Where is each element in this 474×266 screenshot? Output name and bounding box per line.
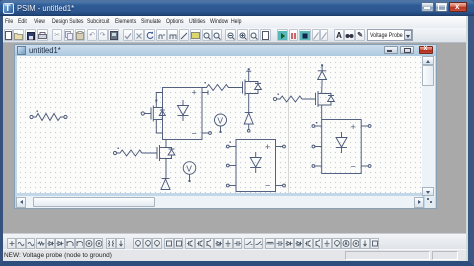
min/max/close <box>421 2 434 12</box>
wire Q3 drain up to BD1 bottom edge <box>165 140 167 148</box>
wire Q4 source to BD3 <box>321 105 323 120</box>
resistor R4 <box>273 94 315 103</box>
MOSFET Q3 <box>157 145 175 161</box>
svg-text:V: V <box>217 115 223 125</box>
diode bridge BD2 <box>226 140 285 192</box>
MOSFET Q4 <box>316 80 335 108</box>
main toolbar <box>3 28 468 43</box>
voltage probe VP1 <box>215 114 227 133</box>
title bar <box>0 0 474 16</box>
resistor R3 <box>113 148 157 157</box>
MOSFET Q2 <box>243 68 262 95</box>
resistor R1 <box>30 111 67 121</box>
schematic SVG <box>17 56 422 193</box>
wire Q2 source down <box>248 94 250 113</box>
bottom element toolbar <box>3 233 466 249</box>
node dot Q1 drain <box>155 100 157 102</box>
MDI grey background <box>3 43 466 233</box>
wire Q1 drain to bridge BD1 top-left <box>156 93 162 108</box>
canvas <box>17 56 422 193</box>
diode bridge BD3 <box>312 120 371 174</box>
resize grip corner <box>425 196 435 208</box>
diode bridge BD1 <box>163 88 212 140</box>
child window <box>14 44 437 209</box>
diode D2 <box>244 113 253 133</box>
wire Q3 drain horizontal <box>163 147 166 149</box>
svg-text:+: + <box>351 122 356 132</box>
svg-text:+: + <box>265 142 270 152</box>
diode D3 <box>318 64 327 79</box>
voltage probe VP2 <box>183 162 196 182</box>
svg-text:−: − <box>192 129 197 139</box>
svg-text:−: − <box>351 162 356 172</box>
horizontal scrollbar <box>17 196 422 208</box>
MOSFET Q1 <box>141 106 165 122</box>
svg-text:+: + <box>192 88 197 98</box>
diode D4 <box>161 179 170 190</box>
svg-text:−: − <box>265 181 270 191</box>
page boundary line <box>288 56 290 193</box>
wire Q1 source to bridge BD1 bottom-left <box>156 120 162 134</box>
resistor R2 <box>202 82 243 91</box>
child title bar <box>15 45 436 56</box>
vertical scrollbar <box>422 56 435 196</box>
menu bar <box>3 16 468 28</box>
svg-text:V: V <box>186 163 192 173</box>
status bar <box>3 249 466 261</box>
wire Q3 source down <box>163 159 166 179</box>
